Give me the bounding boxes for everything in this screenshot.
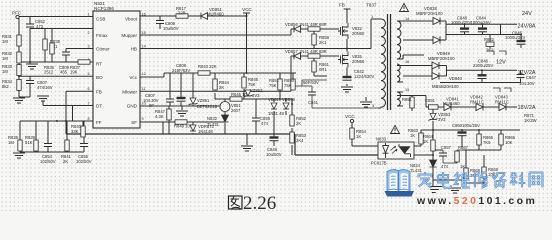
svg-text:2K: 2K [296, 121, 301, 126]
svg-text:MBSB20H100: MBSB20H100 [432, 84, 459, 89]
svg-text:VZ851: VZ851 [197, 98, 210, 103]
svg-text:Ctimer: Ctimer [96, 47, 110, 52]
svg-text:75K: 75K [284, 83, 292, 88]
svg-text:102/50V: 102/50V [40, 159, 56, 164]
svg-text:CSB: CSB [96, 17, 105, 22]
svg-text:18V/2A: 18V/2A [518, 105, 536, 111]
svg-text:75K: 75K [269, 83, 277, 88]
svg-text:465: 465 [60, 70, 68, 75]
svg-text:6: 6 [88, 87, 90, 91]
svg-text:1N41 48: 1N41 48 [268, 111, 285, 116]
svg-text:2607: 2607 [231, 108, 241, 113]
svg-text:7K5: 7K5 [483, 140, 491, 145]
svg-text:1000u/25V: 1000u/25V [451, 20, 471, 25]
svg-text:1K/3W: 1K/3W [524, 118, 537, 123]
svg-text:Fmax: Fmax [96, 33, 108, 38]
svg-text:1M: 1M [2, 69, 8, 74]
svg-text:HB: HB [131, 47, 137, 52]
svg-text:104.30V: 104.30V [519, 81, 535, 86]
svg-text:BZT52C18: BZT52C18 [197, 104, 218, 109]
svg-text:2512: 2512 [44, 70, 54, 75]
svg-text:1000u/35V: 1000u/35V [505, 35, 525, 40]
svg-text:Mlower: Mlower [122, 89, 137, 94]
svg-text:24V: 24V [522, 11, 532, 17]
svg-text:N832: N832 [207, 116, 218, 121]
svg-text:3: 3 [372, 104, 374, 108]
svg-text:0F: 0F [149, 103, 154, 108]
svg-text:RM11C: RM11C [495, 99, 509, 104]
svg-text:2K2: 2K2 [486, 48, 494, 53]
svg-text:RT: RT [96, 62, 102, 67]
svg-text:3V3: 3V3 [438, 117, 446, 122]
svg-text:VD840: VD840 [449, 76, 462, 81]
svg-text:9: 9 [142, 117, 144, 121]
svg-text:VCC: VCC [345, 114, 355, 119]
svg-text:22R: 22R [178, 11, 186, 16]
svg-text:56F/63V: 56F/63V [303, 80, 319, 85]
svg-text:1N4148: 1N4148 [198, 129, 213, 134]
svg-text:C841: C841 [308, 100, 319, 105]
svg-text:GND: GND [127, 104, 138, 109]
svg-text:R849 10K: R849 10K [174, 124, 193, 129]
svg-text:4.3K: 4.3K [155, 114, 164, 119]
svg-text:8k2: 8k2 [2, 84, 9, 89]
svg-text:14: 14 [405, 17, 409, 21]
svg-text:1: 1 [371, 15, 373, 19]
svg-text:C857: C857 [441, 145, 452, 150]
svg-text:1M: 1M [2, 39, 8, 44]
svg-text:2K1: 2K1 [319, 40, 327, 45]
svg-text:0R1: 0R1 [319, 67, 327, 72]
svg-text:N833: N833 [376, 137, 387, 142]
svg-text:14: 14 [142, 45, 146, 49]
svg-text:MBRF20H100: MBRF20H100 [428, 56, 455, 61]
svg-text:MUR460: MUR460 [207, 12, 224, 17]
svg-text:BO: BO [96, 75, 103, 80]
svg-text:12V/2A: 12V/2A [518, 70, 536, 76]
svg-text:Vboot: Vboot [125, 17, 138, 22]
svg-text:R867: R867 [458, 145, 469, 150]
svg-text:FB: FB [339, 3, 345, 8]
svg-text:C851: C851 [425, 98, 436, 103]
svg-text:1: 1 [88, 13, 90, 17]
svg-text:VD856 1N41 48R 68R: VD856 1N41 48R 68R [285, 22, 327, 27]
svg-text:MBRF20H100: MBRF20H100 [416, 11, 443, 16]
svg-text:15: 15 [142, 31, 146, 35]
svg-text:PC817B: PC817B [371, 161, 387, 166]
svg-text:VD849 VD848: VD849 VD848 [268, 97, 295, 102]
svg-text:R862: R862 [484, 37, 495, 42]
svg-text:33K: 33K [71, 129, 79, 134]
svg-text:2: 2 [88, 31, 90, 35]
svg-text:51K: 51K [25, 140, 33, 145]
svg-text:Vcc: Vcc [129, 75, 137, 80]
svg-text:R843 22K: R843 22K [198, 64, 217, 69]
svg-text:VD857 1N41 48R 68R: VD857 1N41 48R 68R [285, 49, 327, 54]
svg-text:100u/25V: 100u/25V [462, 123, 480, 128]
svg-text:2K4: 2K4 [296, 138, 304, 143]
svg-text:216F/63V: 216F/63V [172, 68, 190, 73]
svg-text:12V: 12V [496, 60, 506, 66]
svg-text:15: 15 [405, 88, 409, 92]
svg-text:1M: 1M [2, 56, 8, 61]
svg-text:3: 3 [88, 45, 90, 49]
svg-text:75K: 75K [248, 82, 256, 87]
svg-text:TL431: TL431 [410, 168, 423, 173]
svg-text:Mupper: Mupper [121, 33, 137, 38]
svg-text:474: 474 [441, 164, 449, 169]
svg-text:24V/8A: 24V/8A [518, 24, 536, 30]
svg-text:VCC: VCC [242, 7, 252, 12]
svg-text:16: 16 [142, 13, 146, 17]
svg-text:3V3: 3V3 [252, 93, 260, 98]
svg-text:19K: 19K [70, 70, 78, 75]
svg-text:2K: 2K [219, 85, 224, 90]
svg-text:T837: T837 [366, 3, 377, 8]
svg-text:TL431: TL431 [207, 122, 220, 127]
svg-text:10u/50V: 10u/50V [163, 26, 179, 31]
svg-text:PFC: PFC [12, 11, 22, 16]
svg-text:16: 16 [405, 60, 409, 64]
svg-text:1224/630V: 1224/630V [354, 74, 374, 79]
svg-text:10u/50V: 10u/50V [266, 152, 282, 157]
svg-text:2K: 2K [63, 159, 68, 164]
svg-text:1000u/26V: 1000u/26V [471, 20, 491, 25]
svg-text:474/16V: 474/16V [37, 85, 53, 90]
svg-text:1M: 1M [8, 140, 14, 145]
svg-text:SF: SF [131, 120, 137, 125]
svg-text:DT: DT [96, 104, 102, 109]
svg-text:7: 7 [88, 102, 90, 106]
svg-text:12: 12 [142, 72, 146, 76]
svg-text:2.26: 2.26 [243, 193, 276, 212]
svg-text:1K: 1K [423, 139, 428, 144]
svg-text:NCP1396: NCP1396 [94, 6, 114, 11]
svg-text:FF: FF [96, 120, 102, 125]
svg-text:www.520101.com: www.520101.com [416, 195, 537, 207]
svg-text:1K: 1K [356, 134, 361, 139]
svg-text:R851: R851 [402, 97, 413, 102]
svg-text:8: 8 [88, 117, 90, 121]
svg-text:473: 473 [36, 24, 44, 29]
svg-text:5: 5 [88, 72, 90, 76]
svg-text:20N60: 20N60 [352, 59, 365, 64]
svg-text:11: 11 [142, 87, 146, 91]
svg-text:20N60: 20N60 [352, 31, 365, 36]
svg-text:474: 474 [261, 121, 269, 126]
svg-text:FB: FB [96, 89, 102, 94]
svg-text:2200u/25V: 2200u/25V [473, 63, 493, 68]
svg-text:10K: 10K [505, 140, 513, 145]
svg-text:102/50V: 102/50V [76, 159, 92, 164]
svg-text:1K: 1K [410, 133, 415, 138]
